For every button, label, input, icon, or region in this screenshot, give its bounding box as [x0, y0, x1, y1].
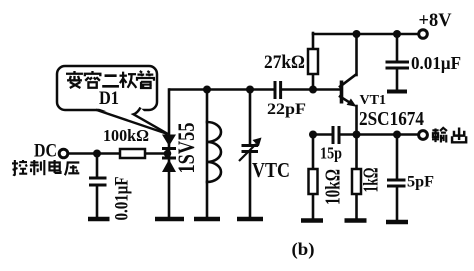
svg-text:15p: 15p [320, 144, 342, 163]
svg-text:D1: D1 [99, 88, 119, 109]
svg-text:0.01μF: 0.01μF [112, 177, 133, 221]
svg-text:VT1: VT1 [360, 93, 387, 108]
svg-text:2SC1674: 2SC1674 [359, 108, 424, 130]
svg-text:VTC: VTC [252, 158, 290, 182]
svg-text:27kΩ: 27kΩ [264, 52, 305, 73]
svg-text:100kΩ: 100kΩ [103, 126, 149, 145]
svg-text:5pF: 5pF [407, 174, 434, 191]
svg-text:(b): (b) [292, 239, 315, 259]
svg-text:0.01μF: 0.01μF [411, 53, 461, 73]
svg-text:1kΩ: 1kΩ [359, 168, 383, 193]
svg-text:10kΩ: 10kΩ [321, 169, 345, 205]
svg-text:DC: DC [34, 141, 57, 162]
svg-text:1SV55: 1SV55 [174, 123, 200, 174]
svg-text:22pF: 22pF [267, 101, 306, 118]
svg-text:+8V: +8V [419, 11, 453, 31]
